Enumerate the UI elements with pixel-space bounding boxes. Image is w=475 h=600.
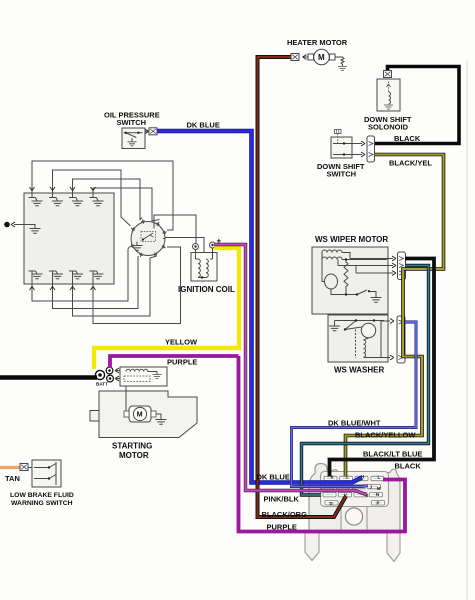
- coil positive terminal: [210, 242, 216, 248]
- connector body: [309, 464, 400, 534]
- resistor: [344, 260, 348, 295]
- connector left leg: [305, 533, 319, 561]
- svg-text:SWITCH: SWITCH: [327, 170, 357, 179]
- connector washer: [397, 316, 405, 363]
- spark plug 5: [29, 271, 43, 284]
- ground washer: [329, 326, 340, 331]
- spark plug 1: [29, 193, 43, 206]
- wire distributor cap to coil tower: [166, 238, 205, 253]
- ground engine block: [30, 229, 41, 234]
- brake switch box: [32, 460, 61, 487]
- arrow to connector: [304, 56, 309, 58]
- svg-text:M: M: [137, 412, 143, 419]
- wire spark plug 5 lead: [32, 247, 130, 302]
- svg-text:DK BLUE: DK BLUE: [257, 473, 290, 482]
- engine ground arrow to block: [4, 222, 10, 228]
- wire black: wiper to bulkhead pin A: [330, 259, 435, 477]
- solenoid S terminal: [106, 367, 113, 374]
- svg-text:BLACK: BLACK: [395, 462, 422, 471]
- motor armature: [325, 274, 338, 289]
- svg-text:YELLOW: YELLOW: [165, 338, 198, 347]
- svg-text:PURPLE: PURPLE: [267, 523, 297, 532]
- svg-text:L: L: [378, 475, 381, 480]
- pins row 2: J: [321, 484, 334, 488]
- washer cam: [361, 323, 375, 337]
- svg-text:PURPLE: PURPLE: [167, 358, 197, 367]
- ground oil switch: [128, 142, 137, 146]
- ground distributor: [136, 242, 138, 246]
- ws washer box: [328, 315, 388, 362]
- wire spark plug 6 lead: [53, 256, 139, 309]
- wire dk blue/wht: washer to bulkhead pin J: [292, 322, 417, 487]
- output leads: [338, 259, 393, 274]
- arrows to connector: [352, 144, 362, 155]
- ground solenoid: [153, 375, 162, 379]
- wire spark plug 2 lead: [53, 170, 131, 226]
- distributor body: [131, 222, 165, 256]
- battery stud: [95, 370, 104, 379]
- svg-text:STARTING: STARTING: [112, 442, 152, 451]
- svg-text:SWITCH: SWITCH: [117, 118, 147, 127]
- wire black/lt blue: wiper to bulkhead row3: [302, 266, 429, 496]
- wire black solenoid to switch: [375, 67, 459, 144]
- connector heater: [291, 54, 299, 61]
- wire black/yellow: downshift switch to bulkhead pin C: [346, 155, 444, 477]
- switch actuator: [335, 130, 342, 134]
- spark plug 2: [49, 193, 63, 206]
- svg-text:WARNING SWITCH: WARNING SWITCH: [11, 500, 73, 507]
- heater motor: [308, 54, 314, 60]
- svg-text:PINK/BLK: PINK/BLK: [264, 495, 300, 504]
- ground wiper switch: [371, 298, 382, 303]
- coil negative terminal: [193, 244, 199, 250]
- wire yellow: coil+ to solenoid, down to junction: [94, 248, 239, 369]
- ground starting motor: [156, 420, 167, 425]
- down shift switch box: [331, 137, 352, 158]
- connector right leg: [387, 533, 400, 562]
- arrows into connector: [390, 319, 394, 324]
- arrows into connector: [392, 256, 396, 261]
- motor armature: [129, 406, 151, 422]
- svg-text:IGNITION COIL: IGNITION COIL: [178, 285, 235, 294]
- svg-text:HEATER MOTOR: HEATER MOTOR: [287, 38, 348, 47]
- solenoid R terminal: [107, 375, 114, 382]
- arrowheads on plug leads: [30, 187, 96, 290]
- spark plug box: [24, 193, 114, 284]
- svg-text:MOTOR: MOTOR: [119, 451, 149, 460]
- ground heater motor: [335, 57, 344, 66]
- field coils: [322, 250, 342, 253]
- spark plug 3: [69, 193, 83, 206]
- connector wiper motor: [398, 252, 406, 280]
- svg-text:P: P: [377, 501, 380, 506]
- spark plug 6: [49, 271, 63, 284]
- svg-text:BLACK/YEL: BLACK/YEL: [389, 159, 432, 168]
- wire spark plug 1 lead: [32, 161, 173, 230]
- solenoid terminals arrows: [116, 371, 120, 379]
- solenoid box: [120, 367, 167, 386]
- svg-text:BLACK/ORG: BLACK/ORG: [262, 510, 308, 519]
- connector tan: [20, 464, 28, 471]
- switch: [357, 290, 367, 295]
- down shift solenoid: [377, 79, 400, 111]
- distributor cap towers: [129, 219, 167, 258]
- connector oil switch: [145, 130, 148, 132]
- ignition coil box: [191, 253, 217, 282]
- pin letters: [330, 474, 382, 506]
- wire spark plug 4 lead: [93, 188, 160, 221]
- svg-text:WS WASHER: WS WASHER: [334, 366, 384, 375]
- svg-text:M: M: [377, 486, 381, 491]
- wire distributor points to coil negative: [154, 215, 196, 244]
- wire purple: coil+ / solenoid S / bulkhead: [110, 356, 405, 532]
- pins row 4: D P: [325, 501, 338, 505]
- svg-text:M: M: [318, 53, 325, 62]
- spark plug 7: [69, 271, 83, 284]
- connector center housing: [341, 505, 367, 533]
- wire black/org: heater motor down to bulkhead: [258, 57, 347, 517]
- pin field: [321, 472, 389, 507]
- coil windings: [196, 248, 213, 278]
- connector down shift switch: [367, 136, 375, 162]
- oil pressure switch box: [122, 128, 145, 149]
- svg-text:N: N: [376, 492, 379, 497]
- spark plug 8: [90, 271, 104, 284]
- wire pink/blk: coil positive down to bulkhead pin K: [214, 245, 366, 495]
- svg-text:DK BLUE/WHT: DK BLUE/WHT: [328, 419, 381, 428]
- page edge line: [466, 60, 468, 600]
- svg-text:SOLONOID: SOLONOID: [368, 123, 409, 132]
- connector solenoid: [384, 71, 392, 78]
- svg-text:D: D: [330, 501, 333, 506]
- svg-text:DK BLUE: DK BLUE: [187, 121, 220, 130]
- distributor points (breaker): [141, 232, 156, 242]
- svg-text:TAN: TAN: [5, 474, 20, 483]
- wire spark plug 8 lead: [93, 247, 181, 324]
- wire spark plug 7 lead: [73, 256, 157, 316]
- ws wiper motor box: [312, 247, 388, 314]
- svg-text:LOW BRAKE FLUID: LOW BRAKE FLUID: [10, 492, 74, 499]
- wire dk blue: oil switch to bulkhead pin H: [157, 131, 362, 483]
- svg-text:WS WIPER MOTOR: WS WIPER MOTOR: [315, 235, 388, 244]
- wire spark plug 3 lead: [73, 179, 143, 220]
- pins row 1: A C H L: [324, 476, 337, 480]
- spark plug 4: [90, 193, 104, 206]
- starting motor body: [99, 391, 197, 438]
- wire tan: [0, 466, 20, 469]
- pins row 3: V K N: [323, 493, 336, 497]
- svg-text:BLACK/LT BLUE: BLACK/LT BLUE: [363, 450, 422, 459]
- svg-text:BLACK: BLACK: [394, 134, 421, 143]
- svg-text:BLACK/YELLOW: BLACK/YELLOW: [355, 431, 416, 440]
- wire battery cable black: [0, 375, 97, 380]
- svg-text:BATT: BATT: [96, 382, 108, 387]
